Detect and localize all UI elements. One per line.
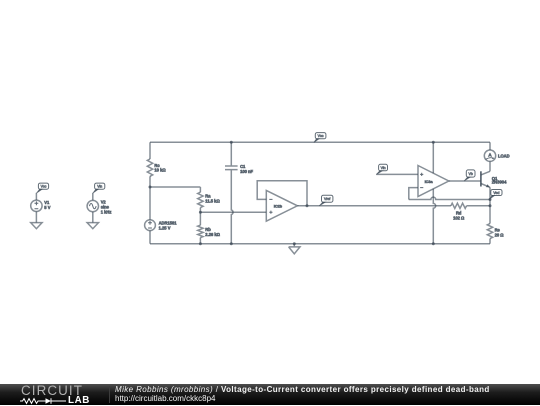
svg-text:Rd: Rd	[456, 211, 462, 216]
svg-text:sine: sine	[101, 205, 110, 210]
wire: IC3a V- supply pin (hops right over Vref wire)	[433, 189, 435, 244]
svg-text:100 nF: 100 nF	[240, 169, 253, 174]
svg-text:1 kHz: 1 kHz	[101, 210, 112, 215]
svg-text:Ra: Ra	[205, 194, 211, 199]
wire: emitter down to Ved node	[489, 187, 491, 199]
junction: Rb bottom on rail	[199, 242, 202, 245]
svg-text:Vb: Vb	[469, 172, 473, 176]
net flag Vcc (on V1)	[36, 183, 48, 193]
label Rb / 2.26 k	[205, 227, 220, 237]
voltage source V2 (sine 1 kHz, Vin)	[87, 193, 98, 223]
svg-text:Rc: Rc	[154, 163, 160, 168]
op-amp IC3a	[418, 166, 449, 197]
net flag Vin (at IC3a +in)	[376, 164, 387, 174]
wire: IC2b feedback (output to -in)	[257, 181, 307, 206]
net flag Vcc (on top rail)	[314, 133, 326, 143]
label V2 / sine / 1 kHz	[101, 200, 112, 215]
svg-text:C1: C1	[240, 164, 246, 169]
label Rd / 102	[453, 211, 465, 221]
svg-text:Vcc: Vcc	[41, 185, 47, 189]
svg-text:IC2b: IC2b	[274, 204, 283, 208]
svg-text:V2: V2	[101, 200, 107, 205]
label Q1 / 2N3904	[492, 176, 507, 185]
svg-text:Vin: Vin	[381, 166, 386, 170]
svg-text:5 V: 5 V	[44, 205, 50, 210]
wire: Rc to node A	[149, 176, 151, 220]
wire: node A to Ra top	[150, 187, 200, 192]
wire: IC3a feedback (-in down to emitter sense line)	[409, 188, 418, 200]
svg-text:Vref: Vref	[324, 197, 330, 201]
ground (main rail)	[289, 244, 300, 254]
wire: emitter sense line (hops over IC3a V- pin wire)	[409, 197, 490, 199]
svg-text:10 kΩ: 10 kΩ	[154, 168, 166, 173]
wire: Ra bottom to divider node	[199, 208, 201, 213]
wire: top Vcc rail	[150, 141, 490, 143]
junction: divider node	[199, 211, 202, 214]
junction: Ved node (emitter/sense)	[489, 198, 492, 201]
wire: divider node to IC2b +in (hops over C1 wire)	[200, 211, 266, 213]
net flag Vref	[319, 195, 333, 206]
resistor Ra	[198, 192, 203, 207]
svg-text:2N3904: 2N3904	[492, 180, 507, 185]
svg-text:Rb: Rb	[205, 227, 211, 232]
capacitor C1 100 nF	[225, 142, 238, 243]
wire: IC3a output to Q1 base	[449, 180, 481, 182]
wire: Re to bottom rail	[489, 239, 491, 244]
label C1 / 100 nF	[240, 164, 253, 174]
svg-text:LOAD: LOAD	[498, 154, 510, 159]
resistor Re	[487, 224, 492, 239]
wire: left vertical (top rail to Rc)	[149, 142, 151, 159]
junction: IC3a V+ pin on Vcc rail	[432, 141, 435, 144]
label Ra / 11.5 k	[205, 194, 220, 204]
wire: bottom ground rail	[150, 243, 490, 245]
junction: feedback on output wire	[306, 204, 309, 207]
junction: IC3a V- pin on ground rail	[432, 242, 435, 245]
svg-text:Vcc: Vcc	[318, 134, 324, 138]
wire: collector up to ammeter	[489, 161, 491, 171]
wire: Rd to Ved node	[467, 205, 491, 207]
wire: Vin flag to IC3a +in	[376, 173, 418, 175]
net flag Ved	[489, 190, 502, 200]
svg-text:Re: Re	[495, 227, 501, 232]
voltage source ADR1581 1.25 V	[145, 220, 156, 231]
svg-text:V1: V1	[44, 200, 50, 205]
label V1 / 5 V	[44, 200, 50, 210]
wire: IC3a V+ supply pin	[432, 142, 434, 173]
wire: Ved node to Re	[489, 200, 491, 224]
svg-text:11.5 kΩ: 11.5 kΩ	[205, 198, 220, 203]
ammeter LOAD	[484, 142, 495, 161]
label LOAD	[498, 154, 510, 159]
svg-text:IC3a: IC3a	[425, 180, 434, 184]
node A junction (left vertical / Ra branch)	[149, 186, 152, 189]
svg-text:2.26 kΩ: 2.26 kΩ	[205, 232, 220, 237]
CircuitLab logo	[21, 383, 83, 398]
transistor Q1 2N3904	[481, 171, 490, 187]
label Re / 20	[495, 227, 505, 237]
label Rc / 10 k	[154, 163, 166, 173]
svg-text:ADR1581: ADR1581	[159, 220, 178, 225]
resistor Rd (horizontal)	[451, 203, 467, 208]
ground (under V1)	[31, 223, 42, 229]
svg-text:1.25 V: 1.25 V	[159, 225, 171, 230]
svg-text:102 Ω: 102 Ω	[453, 216, 465, 221]
junction: ground symbol attach	[293, 242, 296, 245]
op-amp IC2b	[266, 190, 297, 221]
svg-text:20 Ω: 20 Ω	[495, 232, 505, 237]
junction: C1 bottom on rail	[230, 242, 233, 245]
label ADR1581 / 1.25 V	[159, 220, 178, 230]
ground (under V2)	[87, 223, 98, 229]
banner	[0, 384, 540, 405]
junction: C1 top on Vcc rail	[230, 141, 233, 144]
voltage source V1 (5 V, Vcc)	[31, 193, 42, 223]
svg-text:Vin: Vin	[97, 185, 102, 189]
junction: Rd at Ved node	[489, 204, 492, 207]
net flag Vin (on V2)	[93, 183, 105, 193]
net flag Vb	[464, 170, 475, 181]
resistor Rc	[147, 159, 152, 176]
resistor Rb	[198, 212, 203, 244]
svg-text:Ved: Ved	[493, 191, 499, 195]
wire: ADR1581 to bottom rail	[149, 231, 151, 244]
wire: IC2b output / Vref net to Rd	[297, 205, 451, 207]
